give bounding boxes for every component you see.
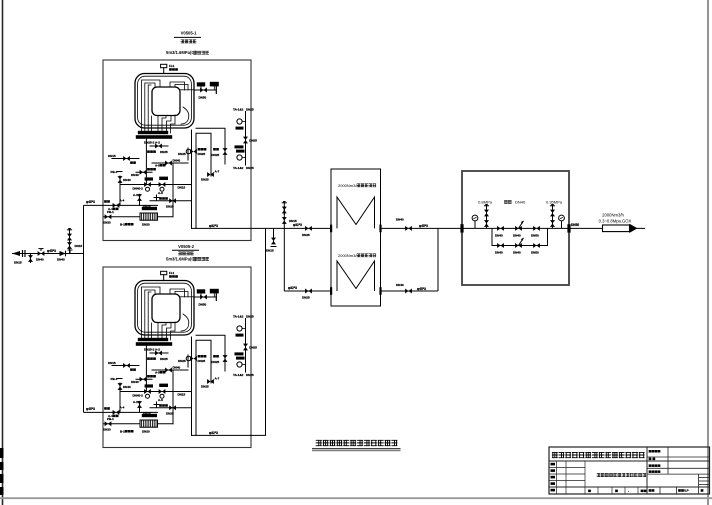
svg-text:0.3~0.8Mpa.GOX: 0.3~0.8Mpa.GOX <box>599 219 632 224</box>
pressure regulating station box <box>462 171 569 285</box>
svg-text:0.35MPa: 0.35MPa <box>546 200 563 205</box>
drawing title in block <box>597 473 646 476</box>
svg-text:V0505-2: V0505-2 <box>178 244 195 249</box>
svg-text:DN25: DN25 <box>302 233 310 237</box>
vaporizer E1 label <box>338 183 376 188</box>
inlet valve DN40 <box>36 249 56 262</box>
svg-text:DN50: DN50 <box>531 250 539 254</box>
svg-text:DN15: DN15 <box>266 248 274 252</box>
svg-text:2000Nm3/h: 2000Nm3/h <box>338 183 359 188</box>
revision row marks <box>551 463 556 492</box>
svg-text:φ45*3: φ45*3 <box>417 287 426 291</box>
company name cell <box>552 452 645 457</box>
drawing frame right border <box>707 0 709 505</box>
drawing frame bottom border <box>0 497 712 499</box>
svg-text:DN40: DN40 <box>513 233 521 237</box>
svg-text:DN15: DN15 <box>14 261 22 265</box>
svg-text:DN50: DN50 <box>531 233 539 237</box>
svg-text:DN50: DN50 <box>571 223 579 227</box>
svg-text:DN40: DN40 <box>396 217 404 221</box>
tank V0505-1 unit <box>84 60 257 241</box>
product outlet pipe to customer <box>569 223 645 228</box>
inlet vent valve DN15 with relief <box>67 228 83 254</box>
svg-text:0.8MPa: 0.8MPa <box>478 200 493 205</box>
svg-text:DN40: DN40 <box>495 250 503 254</box>
vaporizer E1 coil <box>337 197 375 228</box>
outlet valve DN40 (lower) <box>396 283 426 294</box>
tank V0505-2 unit <box>84 267 257 448</box>
station main pipe <box>462 227 569 229</box>
vaporizer E2 outlet flange <box>379 287 381 295</box>
svg-text:DN40: DN40 <box>57 257 65 261</box>
svg-text:DN40: DN40 <box>513 250 521 254</box>
svg-text:V0505-1: V0505-1 <box>181 31 198 36</box>
vaporizer E1 outlet pipe <box>381 227 463 229</box>
bottom row cells <box>598 487 638 494</box>
station inlet flange <box>460 224 463 232</box>
bypass regulator DN40 <box>513 238 524 255</box>
svg-text:DN15: DN15 <box>289 219 297 223</box>
vaporizer branch downcomer <box>283 228 285 291</box>
tank V0505-2 labels <box>166 244 209 261</box>
outlet collector <box>437 228 439 291</box>
svg-text:-: - <box>628 489 629 493</box>
junction to tank2 outlet <box>250 228 266 435</box>
vaporizer E2 label <box>338 253 376 258</box>
drawing title <box>312 440 401 451</box>
svg-text:φ45*3: φ45*3 <box>47 249 56 253</box>
pressure gauge PI right <box>559 215 565 228</box>
tank V0505-1 labels <box>166 31 209 56</box>
outlet valve DN40 (upper) <box>396 217 428 231</box>
bottom row labels <box>588 489 646 493</box>
svg-text:DN40: DN40 <box>36 257 44 261</box>
main line valve DN50 <box>531 226 540 238</box>
vaporizer E2 outlet pipe <box>381 290 439 292</box>
revision rows left <box>549 461 585 494</box>
inlet drain valve DN15 <box>14 254 33 265</box>
header isolation valve DN25 (upper) <box>302 226 312 237</box>
left margin tick marks <box>0 448 4 495</box>
station outlet flange <box>567 224 570 232</box>
vaporizer E1 inlet flange <box>330 225 332 233</box>
svg-text:2000Nm3/h: 2000Nm3/h <box>338 253 359 258</box>
svg-text:DN40: DN40 <box>495 233 503 237</box>
outlet flow arrow capsule <box>603 224 638 233</box>
pressure gauge PI left <box>472 215 478 228</box>
lower isolation valve DN25 <box>302 289 312 300</box>
vaporizer E2 coil <box>337 261 375 291</box>
outlet flow labels <box>599 213 632 224</box>
safety valve set 0.35MPa <box>546 200 563 229</box>
project info rows right <box>647 447 710 494</box>
bypass valve DN40 <box>495 243 504 254</box>
inlet pipe from left <box>12 250 84 257</box>
main product header <box>251 223 331 228</box>
lower branch to vaporizer 2 <box>284 286 331 291</box>
regulator labels <box>504 200 526 205</box>
vaporizer E2 inlet flange <box>330 287 332 295</box>
svg-text:2000Nm3/h: 2000Nm3/h <box>602 213 624 218</box>
header vent valve DN15 with relief <box>282 201 297 228</box>
main line regulator DN40 <box>513 221 524 238</box>
svg-text:DN25: DN25 <box>302 295 310 299</box>
header drain valve DN15 <box>266 228 277 252</box>
vaporizer box <box>331 169 381 306</box>
main line valve DN40 <box>495 226 504 238</box>
drawing frame left border <box>2 0 4 505</box>
svg-text:5m3/1.6MPa(G): 5m3/1.6MPa(G) <box>166 256 197 261</box>
svg-text:5m3/1.6MPa(G): 5m3/1.6MPa(G) <box>166 50 197 55</box>
svg-text:φ32*3: φ32*3 <box>288 286 297 290</box>
inlet check valve DN40 <box>57 250 73 261</box>
vaporizer E1 outlet flange <box>379 225 381 233</box>
feed riser <box>83 205 85 412</box>
bypass valve DN50 <box>531 243 540 254</box>
project info labels <box>649 450 704 493</box>
title block frame <box>549 447 710 494</box>
svg-text:DN15: DN15 <box>75 244 83 248</box>
svg-text:/LP: /LP <box>684 489 689 493</box>
svg-text:φ45*3: φ45*3 <box>419 224 428 228</box>
svg-text:φ32*3: φ32*3 <box>293 223 302 227</box>
svg-text:DN40: DN40 <box>515 200 526 205</box>
svg-text:DN40: DN40 <box>396 283 404 287</box>
safety valve set 0.8MPa <box>478 200 493 229</box>
bypass loop <box>492 228 548 245</box>
